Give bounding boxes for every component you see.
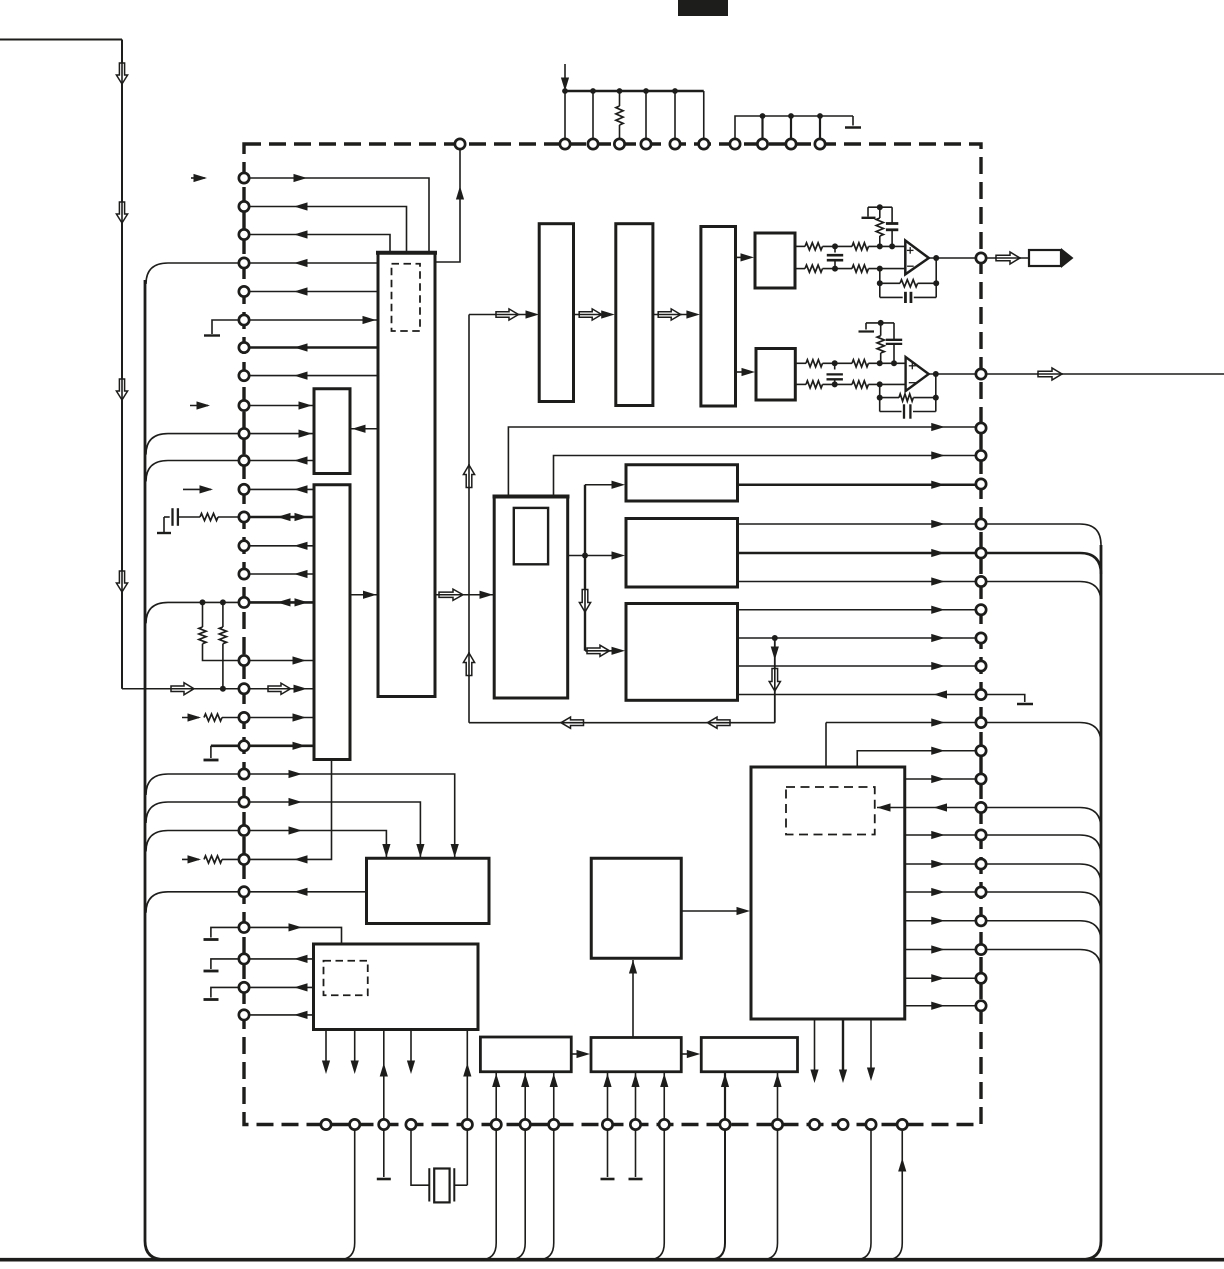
wire M3 out a	[738, 609, 977, 611]
wire bottom merge x725	[709, 1130, 725, 1260]
bus arrow riser up 1	[463, 465, 474, 488]
bus arrow into pin	[171, 683, 194, 695]
wire U5 drop d	[410, 1030, 412, 1063]
wire B1 out 864	[905, 863, 976, 865]
wire left bus tap 3	[146, 461, 244, 482]
wire bottom merge x354	[339, 1130, 355, 1260]
block F1 (filter stage 1)	[539, 224, 573, 402]
wire pin out 5	[244, 291, 378, 293]
pin R y978.25	[976, 973, 986, 983]
termination (x383)	[383, 1130, 385, 1178]
wire bottom merge x871	[855, 1130, 871, 1260]
resistor R24	[852, 381, 868, 388]
pin L y291.5	[239, 286, 249, 296]
wire bottom merge x902 (input)	[887, 1131, 903, 1260]
wire A1 output	[929, 257, 976, 259]
pin T x619.5	[614, 139, 624, 149]
wire U6 riser A to pin	[508, 427, 976, 496]
wire M2 out a	[738, 523, 977, 525]
node on rail wire	[220, 686, 226, 692]
pin R y694.5	[976, 689, 986, 699]
wire left bus tap 7	[146, 831, 244, 852]
ground (pin28)	[211, 987, 244, 997]
wire U6 riser B to pin	[554, 456, 977, 497]
ground (mute pin)	[986, 695, 1025, 703]
wire right bus tap 3	[986, 582, 1101, 603]
wire right bus tap 4	[986, 723, 1101, 744]
pin R y638	[976, 633, 986, 643]
wire supply drop 2	[592, 91, 594, 139]
wire pin out 15	[244, 573, 314, 575]
bottom harness line	[0, 1258, 1224, 1262]
ground (pin20)	[211, 744, 244, 747]
wire B1 out 949.5	[905, 949, 976, 951]
resistor R12	[852, 243, 869, 250]
resistor R5 + stub (pin19)	[182, 717, 199, 719]
block Q1 (servo processor)	[591, 858, 681, 958]
wire G2 in b	[635, 1073, 637, 1120]
sub-block U1a (dashed)	[392, 264, 421, 331]
wire pin in 9	[244, 405, 314, 407]
resistor R21	[806, 360, 823, 367]
wire pin in 17	[244, 660, 314, 662]
wire U1 to U6 (bus)	[435, 594, 494, 596]
pin B x354.7	[350, 1119, 360, 1129]
wire U3 to U1	[350, 594, 378, 596]
node supply bus x675	[672, 88, 678, 94]
wire pin out 27	[244, 958, 314, 960]
resistor R13	[805, 265, 823, 272]
wire A1 minus line	[795, 268, 805, 270]
block F3 (filter stage 3)	[701, 227, 736, 407]
crystal X1	[411, 1130, 429, 1186]
pin R y1005.75	[976, 1001, 986, 1011]
wire A2 output	[929, 373, 976, 375]
block M3 (mixer 3)	[626, 604, 738, 701]
wire G1 in a	[495, 1073, 497, 1120]
wire top-left feed	[0, 39, 122, 41]
pin R y864	[976, 859, 986, 869]
node fb2 b	[933, 395, 939, 401]
pin B x553.75	[549, 1119, 559, 1129]
block U6 (DAC)	[494, 496, 568, 698]
resistor R11	[805, 243, 823, 250]
pin T x735	[730, 139, 740, 149]
block U1 (tall register column)	[378, 253, 435, 697]
block M2 (mixer 2)	[626, 519, 738, 588]
pin T x565	[560, 139, 570, 149]
wire pin out 3	[244, 235, 390, 252]
wire ground bus	[735, 116, 853, 139]
block B1 (digital signal processor)	[751, 767, 905, 1019]
wire pin in 22	[244, 802, 420, 857]
wire bottom merge x525	[510, 1130, 526, 1260]
wire M riser to M1	[585, 484, 614, 486]
node bias top	[877, 204, 883, 210]
wire return bottom run	[469, 722, 775, 724]
wire G3 in a	[724, 1073, 726, 1120]
block U5 (system controller)	[314, 944, 479, 1030]
wire G1 in c	[553, 1073, 555, 1120]
wire M riser to M3	[585, 650, 614, 652]
node +in a	[832, 243, 838, 249]
node -in b	[877, 266, 883, 272]
sub-block U5a (dashed)	[324, 961, 368, 996]
black label box	[678, 0, 728, 16]
pin R y524	[976, 519, 986, 529]
node M feed	[582, 553, 588, 559]
resistor R1 (supply)	[619, 91, 621, 106]
pin R y835	[976, 830, 986, 840]
resistor R23	[806, 381, 823, 388]
node out2	[933, 371, 939, 377]
wire M3 out c	[738, 665, 977, 667]
node supply bus x619.5	[617, 88, 623, 94]
pin B x383.8	[379, 1119, 389, 1129]
bus arrow return 2	[708, 717, 731, 728]
wire ground drop x820	[819, 116, 821, 139]
wire pin SDATA in	[244, 178, 429, 251]
wire F2 to F3 (bus)	[653, 314, 688, 316]
pin L y489.4	[239, 484, 249, 494]
block M1 (mixer 1)	[626, 465, 738, 501]
capacitor C1 + resistor R2 (pin13 net)	[157, 532, 171, 534]
pin L y987.4	[239, 982, 249, 992]
node +in2 c	[891, 360, 897, 366]
pin B x902.25	[897, 1119, 907, 1129]
node fb b	[933, 280, 939, 286]
block G3 (timing)	[701, 1038, 797, 1072]
pin B x871	[866, 1119, 876, 1129]
wire F1 to F2 (bus)	[574, 314, 605, 316]
op-amp U20	[906, 357, 929, 391]
wire B1 bottom drop 3	[870, 1019, 872, 1069]
pin R y455.5	[976, 450, 986, 460]
node ground bus x762.5	[760, 113, 766, 119]
wire pin out 12	[244, 488, 314, 490]
block U4 (control logic)	[367, 858, 490, 923]
wire U1 to U2	[350, 428, 378, 430]
wire M3 return drop	[774, 638, 776, 723]
pin L y859.4	[239, 854, 249, 864]
wire feedback riser (return path)	[468, 315, 470, 723]
node out1	[933, 255, 939, 261]
capacitor C23 (feedback)	[880, 411, 902, 413]
wire F3 to A1	[736, 256, 744, 258]
block F2 (filter stage 2)	[616, 224, 653, 406]
pin T x820	[815, 139, 825, 149]
wire M2 out b	[738, 552, 977, 555]
pin T x460	[455, 139, 465, 149]
resistor R26 (feedback)	[879, 384, 881, 411]
pin L y320	[239, 315, 249, 325]
resistor R6 + stub (pin24)	[182, 858, 199, 860]
wire M1 out	[738, 483, 977, 486]
wire pin out 7	[244, 346, 378, 349]
wire bottom merge x777	[762, 1130, 778, 1260]
bus arrow return 1	[561, 717, 584, 728]
wire M riser	[584, 485, 586, 651]
bias network ch2	[866, 322, 894, 324]
pin T x646	[641, 139, 651, 149]
wire right bus tap 1	[986, 524, 1101, 545]
node -in2 a	[832, 381, 838, 387]
ground (pin6)	[212, 320, 244, 334]
bus arrow M riser down	[579, 590, 590, 613]
wire left bus tap 1	[146, 263, 244, 284]
pin B x411	[406, 1119, 416, 1129]
pin B x467.3	[462, 1119, 472, 1129]
sub-block B1a (dashed)	[786, 787, 875, 835]
node supply bus x565	[562, 88, 568, 94]
pin L y517	[239, 512, 249, 522]
sub-block U6a	[514, 508, 548, 564]
pin R y484	[976, 479, 986, 489]
node -in a	[832, 266, 838, 272]
wire right bus tap 7	[986, 864, 1101, 885]
wire harness right bus	[1081, 545, 1101, 1260]
node +in b	[877, 243, 883, 249]
wire pin in 26	[244, 927, 342, 943]
wire B1 out 920.75	[905, 920, 976, 922]
ground (pin26)	[211, 927, 244, 937]
pin B x607.5	[602, 1119, 612, 1129]
capacitor C13 (feedback)	[880, 296, 903, 298]
block U3 (tall I/O column)	[314, 485, 350, 760]
wire B1 out 779	[905, 778, 976, 780]
wire pin in 18	[244, 688, 314, 690]
wire left bus tap 4	[146, 602, 244, 623]
wire pin out 28	[244, 986, 314, 988]
resistor R15 (bias)	[879, 207, 881, 218]
wire supply drop 4	[674, 91, 676, 139]
pin B x326	[321, 1119, 331, 1129]
wire B1 out 892	[905, 891, 976, 893]
pin R y428	[976, 423, 986, 433]
pin R y553	[976, 548, 986, 558]
pin L y234.5	[239, 229, 249, 239]
node +in2 a	[832, 360, 838, 366]
node fb a	[877, 280, 883, 286]
pin R y779	[976, 774, 986, 784]
resistor R16 (feedback)	[879, 269, 881, 298]
node supply bus x646	[643, 88, 649, 94]
wire left bus tap 5	[146, 774, 244, 795]
pin L y545.8	[239, 541, 249, 551]
wire pin out 2	[244, 207, 407, 252]
wire U6 to M2	[568, 555, 614, 557]
bus arrow 3	[116, 379, 127, 400]
wire G1 to G2	[571, 1053, 579, 1055]
input stub pin9	[190, 405, 208, 407]
wire B1 out 835	[905, 834, 976, 836]
wire G2 in c	[663, 1073, 665, 1120]
wire U5 drop a	[325, 1030, 327, 1063]
pin L y717.5	[239, 712, 249, 722]
wire right bus tap 2	[986, 553, 1101, 574]
IC boundary (dashed)	[244, 144, 981, 1125]
wire pin to B1 top	[825, 723, 827, 767]
wire bottom merge x553	[538, 1130, 554, 1260]
pin T x703.75	[699, 139, 709, 149]
wire right bus tap 10	[986, 950, 1101, 971]
bias network ch1	[868, 206, 892, 208]
node +in c	[889, 243, 895, 249]
pin R y581.5	[976, 576, 986, 586]
wire right bus tap 8	[986, 892, 1101, 913]
wire B1 bottom drop 1	[814, 1019, 816, 1071]
node M3 return tap	[772, 635, 778, 641]
wire out2 off-page	[986, 373, 1224, 375]
pin R y750.75	[976, 746, 986, 756]
pin L y774	[239, 769, 249, 779]
wire Q1 to B1	[681, 910, 739, 912]
pin L y958.9	[239, 954, 249, 964]
wire pin out 29	[244, 1014, 314, 1016]
pin T x593	[588, 139, 598, 149]
wire M3 out b	[738, 637, 977, 639]
wire left rail	[121, 40, 123, 689]
pin R y807.5	[976, 802, 986, 812]
resistor R4 (pull-down b)	[220, 599, 226, 605]
wire B1 out 978.25	[905, 977, 976, 979]
wire U5 drop b	[354, 1030, 356, 1063]
pin R y609.75	[976, 605, 986, 615]
pin L y460.5	[239, 455, 249, 465]
wire pin out 8	[244, 375, 378, 377]
wire M3 in (mute)	[738, 694, 977, 696]
wire U5 in e (xtal)	[466, 1030, 468, 1120]
pin T x675	[670, 139, 680, 149]
pin L y178	[239, 173, 249, 183]
pin B x525.2	[520, 1119, 530, 1129]
wire U3 output down	[244, 760, 332, 860]
pin T x762.5	[757, 139, 767, 149]
wire U5 in c	[383, 1030, 385, 1120]
wire M2 out c	[738, 581, 977, 583]
wire pin bidir 16	[244, 601, 314, 604]
wire pin out 14	[244, 545, 314, 547]
wire right bus tap 6	[986, 835, 1101, 856]
wire B1 bottom drop 2	[842, 1019, 844, 1071]
wire left bus tap 8	[146, 892, 244, 913]
pin T x791	[786, 139, 796, 149]
pin L y375.6	[239, 370, 249, 380]
pin R y258	[976, 253, 986, 263]
wire G2 in a	[607, 1073, 609, 1120]
block A1 (ch1 output buffer)	[755, 233, 795, 288]
pin L y1014.9	[239, 1010, 249, 1020]
node ground bus x820	[817, 113, 823, 119]
wire pin out 4	[244, 262, 378, 264]
wire pin bidir 13	[244, 516, 314, 519]
ground (top cluster)	[852, 116, 854, 126]
block G1 (clock gen)	[480, 1037, 571, 1072]
pin L y802	[239, 797, 249, 807]
node bias2 top	[878, 320, 884, 326]
pin L y830.5	[239, 825, 249, 835]
wire pin out 25	[244, 891, 367, 893]
connector J1	[1029, 250, 1061, 266]
wire pin in 19	[244, 717, 314, 719]
ground (bias ch2)	[865, 323, 867, 330]
node fb2 a	[877, 395, 883, 401]
wire ground drop x791	[790, 116, 792, 139]
wire A2 minus line	[795, 383, 806, 385]
pin L y206.5	[239, 201, 249, 211]
wire G1 in b	[524, 1073, 526, 1120]
pin R y892	[976, 887, 986, 897]
pin L y263	[239, 258, 249, 268]
termination (x607)	[607, 1130, 609, 1178]
node +in2 b	[877, 360, 883, 366]
wire F3 to A2	[736, 371, 745, 373]
pin B x635.5	[630, 1119, 640, 1129]
capacitor C22 (bias)	[893, 323, 895, 340]
wire left bus tap 6	[146, 802, 244, 823]
bus arrow riser up 2	[463, 653, 474, 676]
wire supply drop 5	[703, 91, 705, 139]
wire pin in 20	[244, 744, 314, 747]
pin L y405.5	[239, 400, 249, 410]
wire rail to pin	[122, 688, 244, 690]
wire right bus tap 9	[986, 921, 1101, 942]
wire supply bus	[565, 90, 704, 92]
bus arrow 2	[116, 202, 127, 223]
capacitor C12 (bias)	[891, 207, 893, 223]
pin L y602.4	[239, 597, 249, 607]
op-amp U10	[905, 241, 929, 275]
wire U1 to top pin	[435, 149, 460, 262]
resistor R25 (bias)	[880, 323, 882, 336]
pin B x664.25	[659, 1119, 669, 1129]
wire out1 to jack	[986, 257, 1030, 259]
pin L y688.75	[239, 684, 249, 694]
pin B x777.5	[772, 1119, 782, 1129]
wire G2 to G3	[681, 1053, 689, 1055]
wire pin in 10	[244, 433, 314, 435]
wire harness left bus	[145, 280, 165, 1260]
wire ground drop x762.5	[761, 116, 763, 139]
ground (pin27)	[211, 959, 244, 969]
block A2 (ch2 output buffer)	[756, 349, 795, 401]
pin B x843	[838, 1119, 848, 1129]
resistor R3 (pull-down a)	[200, 599, 206, 605]
node -in2 b	[877, 381, 883, 387]
wire B1 in 807.5	[877, 807, 976, 809]
pin B x814.5	[809, 1119, 819, 1129]
capacitor C11 (input)	[834, 246, 836, 252]
wire pin in 21	[244, 774, 455, 857]
input stub pin12	[183, 488, 211, 490]
wire pin out 11	[244, 460, 314, 462]
wire riser to F1	[469, 314, 527, 316]
capacitor C21 (input)	[834, 363, 836, 369]
wire B1 out 1005.75	[905, 1005, 976, 1007]
pin R y374	[976, 369, 986, 379]
wire supply drop 1	[564, 91, 566, 139]
pin B x496.2	[491, 1119, 501, 1129]
pin R y666	[976, 661, 986, 671]
wire B1 top out	[857, 751, 976, 766]
wire A2 plus line	[795, 362, 806, 364]
wire right bus tap 5	[986, 808, 1101, 829]
input stub pin1	[191, 177, 205, 179]
pin L y574	[239, 569, 249, 579]
ground (bias ch1)	[867, 207, 869, 216]
bus arrow 1	[116, 63, 127, 84]
wire bottom merge x664	[649, 1130, 665, 1260]
